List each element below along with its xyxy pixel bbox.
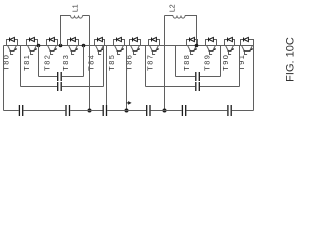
transistor T82 with antiparallel diode (42, 37, 57, 70)
node junction mid post to bottom bus (125, 109, 129, 113)
capacitor bottom bus C2 (66, 105, 70, 116)
wire DC bus left post (T80 left terminal down to bottom bus) (3, 46, 5, 111)
node junction T83/T84 with drop to inner flying-cap rail (82, 44, 86, 48)
capacitor C-outer-left (58, 82, 62, 91)
svg-text:T88: T88 (182, 54, 191, 71)
capacitor bottom bus C4 (147, 105, 150, 116)
svg-text:L2: L2 (170, 4, 177, 12)
capacitor bottom bus C1 (19, 105, 22, 116)
transistor T81 with antiparallel diode (22, 37, 38, 70)
wire drop T89/T90 node to inner flying-cap rail (right leg) (220, 46, 222, 77)
wire mid node T85/T86 down to bottom bus with output arrow (126, 46, 128, 111)
transistor T84 with antiparallel diode (86, 37, 104, 70)
wire main rail (node row of switching cells) (4, 45, 254, 47)
transistor T91 with antiparallel diode (237, 37, 254, 70)
transistor T83 with antiparallel diode (61, 37, 78, 70)
wire bottom DC bus (4, 110, 254, 112)
svg-text:T84: T84 (86, 54, 95, 71)
capacitor C-outer-right (196, 82, 200, 91)
capacitor bottom bus C5 (182, 105, 185, 116)
node junction T81/T82 with drop to inner flying-cap rail (37, 44, 41, 48)
node junction T82/T83 tap to inductor L1 (59, 44, 63, 48)
wire drop T84/T85 second lead down to bottom capacitor plate (106, 46, 108, 106)
transistor T89 with antiparallel diode (202, 37, 216, 70)
wire rail of C-outer-right (146, 86, 196, 88)
wire DC bus right post (T91 right terminal down to bottom bus) (253, 40, 255, 111)
wire inductor L1 right lead down across rail to bottom bus (89, 16, 91, 111)
inductor L1 loop wire (61, 16, 71, 46)
capacitor bottom bus C6 (228, 105, 231, 116)
transistor T85 with antiparallel diode (107, 37, 125, 70)
arrow output marker (127, 102, 129, 104)
node junction T88/T89 tap to inductor L2 (195, 44, 199, 48)
node junction L1 to bottom bus (88, 109, 92, 113)
svg-text:T89: T89 (202, 54, 211, 71)
wire drop T90/T91 node to outer flying-cap rail (right leg) (239, 46, 241, 87)
svg-text:T83: T83 (61, 54, 70, 71)
inductor L2 winding (173, 16, 185, 19)
wire rail of C-inner-right (176, 76, 196, 78)
inductor L2 loop wire (165, 15, 174, 17)
svg-text:T81: T81 (22, 54, 31, 71)
wire inductor L2 left lead down across rail to bottom bus (164, 16, 166, 111)
transistor T90 with antiparallel diode (221, 37, 235, 70)
wire drop T84/T85 node to outer flying-cap rail (103, 46, 105, 87)
svg-text:L1: L1 (73, 4, 80, 12)
svg-text:T82: T82 (42, 54, 51, 71)
svg-text:T90: T90 (221, 54, 230, 71)
capacitor C-inner-left (58, 72, 62, 81)
wire rail of C-inner-left (39, 76, 58, 78)
wire drop T80/T81 node to outer flying-cap rail (20, 46, 22, 87)
transistor T88 with antiparallel diode (182, 37, 198, 70)
svg-text:T86: T86 (125, 54, 134, 71)
svg-text:T85: T85 (107, 54, 116, 71)
capacitor C-inner-right (196, 72, 200, 81)
transistor T86 with antiparallel diode (125, 37, 141, 70)
inductor L1 winding (71, 16, 83, 19)
transistor T80 with antiparallel diode (2, 37, 18, 70)
wire rail of C-outer-left (21, 86, 58, 88)
svg-text:FIG. 10C: FIG. 10C (285, 37, 297, 82)
svg-text:T87: T87 (145, 54, 154, 71)
svg-text:T91: T91 (237, 54, 246, 71)
wire drop T87/T88 node to inner flying-cap rail (right leg) (175, 46, 177, 77)
transistor T87 with antiparallel diode (145, 37, 159, 70)
node junction L2 to bottom bus (163, 109, 167, 113)
capacitor bottom bus C3 (103, 105, 106, 116)
wire drop T86/T87 node to outer flying-cap rail (right leg) (145, 46, 147, 87)
